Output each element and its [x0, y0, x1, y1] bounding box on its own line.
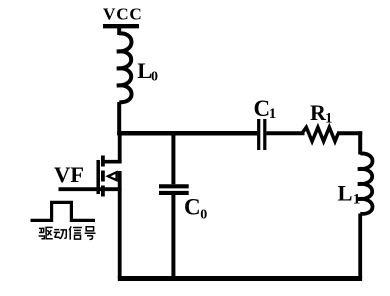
动 — [54, 230, 60, 239]
svg-text:1: 1 — [269, 106, 277, 122]
drive pulse symbol — [31, 202, 96, 220]
gate bar — [96, 160, 100, 194]
inductor L0 — [117, 33, 132, 102]
信 — [69, 226, 82, 239]
corner down — [358, 131, 362, 154]
gate lead — [59, 187, 122, 191]
svg-text:C: C — [254, 96, 271, 121]
resistor R1 — [302, 127, 338, 141]
bottom rail — [118, 276, 362, 281]
inductor L1 — [358, 153, 373, 213]
svg-text:0: 0 — [200, 207, 207, 222]
wire L0 to node — [117, 102, 121, 135]
wire VCC stub — [117, 26, 121, 35]
capacitor C1 — [257, 119, 260, 150]
wire R1 to corner — [337, 131, 362, 135]
channel segment bottom — [101, 186, 105, 197]
svg-text:1: 1 — [325, 111, 333, 127]
drain lead — [103, 160, 122, 164]
wire C1 to R1 — [266, 131, 304, 135]
svg-text:L: L — [338, 181, 353, 206]
号 — [85, 227, 96, 240]
label 驱动信号 (drawn strokes) — [39, 226, 96, 239]
svg-text:VCC: VCC — [103, 5, 143, 24]
svg-text:0: 0 — [151, 70, 158, 85]
wire L1 to rail — [358, 214, 362, 279]
svg-text:1: 1 — [353, 192, 361, 208]
body arrow — [105, 170, 118, 182]
drain vertical — [118, 133, 122, 162]
source vertical to rail — [118, 171, 122, 278]
channel segment middle — [101, 171, 105, 182]
channel segment top — [101, 156, 105, 167]
svg-text:VF: VF — [54, 162, 84, 187]
驱 — [39, 228, 45, 238]
svg-text:C: C — [184, 195, 201, 220]
node line (drain node to C1) — [117, 131, 257, 136]
capacitor C0 — [171, 133, 175, 184]
VCC terminal bar — [103, 24, 139, 28]
